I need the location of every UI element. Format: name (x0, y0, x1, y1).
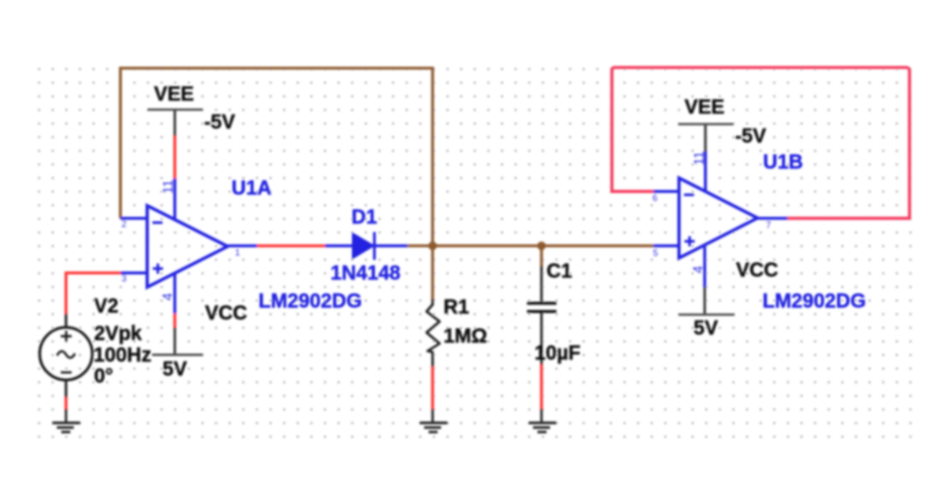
op-amp U1A pin stubs (120, 179, 257, 314)
capacitor C1 black lead top (540, 266, 543, 302)
wire: red VEE symbol to U1A pin 11 (173, 135, 176, 178)
svg-text:LM2902DG: LM2902DG (259, 291, 362, 313)
resistor R1 black lead bottom (431, 352, 434, 367)
svg-text:D1: D1 (352, 207, 378, 229)
svg-text:1MΩ: 1MΩ (444, 326, 488, 348)
diode D1 wire blue segments (325, 244, 407, 247)
wire: red from V2 top to U1A + input (66, 273, 121, 314)
node: junction dot at C1 branch (537, 242, 546, 251)
op-amp U1B pin stubs (654, 151, 788, 287)
svg-text:0°: 0° (94, 366, 113, 388)
wire: pink feedback loop U1B (output to inverting input) (612, 67, 910, 218)
svg-text:-5V: -5V (735, 126, 767, 148)
svg-text:U1A: U1A (232, 178, 272, 200)
svg-text:4: 4 (690, 265, 705, 273)
ground below C1 (529, 409, 557, 432)
wire: brown main node horizontal (diode cathode to U1B + input) (407, 244, 653, 247)
VEE power symbol (U1B) (678, 97, 767, 152)
op-amp U1B plus sign (685, 236, 695, 246)
VEE power symbol (U1A) (148, 83, 236, 136)
capacitor C1 plates (527, 303, 557, 311)
ground below V2 (52, 409, 80, 432)
op-amp U1A minus sign (153, 221, 163, 224)
wire: red C1 bottom to ground (540, 364, 543, 410)
svg-text:LM2902DG: LM2902DG (763, 291, 866, 313)
diode D1 cathode bar (373, 232, 376, 260)
svg-text:VEE: VEE (154, 83, 194, 105)
svg-text:5V: 5V (163, 359, 188, 381)
svg-text:4: 4 (160, 293, 175, 301)
svg-text:1N4148: 1N4148 (331, 263, 401, 285)
source V2 black lead bottom (65, 380, 68, 397)
resistor R1 zigzag (427, 305, 440, 353)
svg-text:11: 11 (160, 180, 175, 194)
svg-text:100Hz: 100Hz (94, 345, 152, 367)
svg-text:R1: R1 (444, 297, 470, 319)
wire: brown drop to C1 (540, 246, 543, 267)
svg-text:U1B: U1B (763, 152, 803, 174)
svg-text:V2: V2 (94, 296, 118, 318)
svg-text:2: 2 (122, 219, 127, 229)
svg-text:VCC: VCC (205, 303, 247, 325)
svg-text:2Vpk: 2Vpk (94, 323, 143, 345)
wire: red V2 bottom to ground (65, 397, 68, 410)
op-amp U1B body (679, 178, 758, 258)
svg-text:5: 5 (653, 248, 658, 258)
svg-text:3: 3 (122, 274, 127, 284)
svg-text:-5V: -5V (204, 111, 236, 133)
op-amp U1B minus sign (684, 194, 694, 197)
node: junction dot at R1 branch (428, 242, 437, 251)
source V2 minus (61, 371, 72, 373)
svg-text:6: 6 (653, 193, 658, 203)
source V2 plus (61, 331, 72, 342)
source V2 sine (57, 351, 75, 358)
svg-text:10µF: 10µF (535, 343, 581, 365)
op-amp U1A body (147, 206, 227, 288)
wire: red from U1A output to diode anode (257, 244, 326, 247)
wire: brown drop to R1 (431, 246, 434, 300)
capacitor C1 black lead bottom (540, 313, 543, 365)
svg-text:C1: C1 (547, 261, 573, 283)
wire: red U1A pin 4 to VCC symbol (173, 313, 176, 328)
VCC power symbol (U1B) (679, 259, 779, 339)
svg-text:7: 7 (766, 220, 771, 230)
grid dots (37, 67, 913, 440)
op-amp U1A plus sign (153, 264, 163, 274)
resistor R1 black lead top (431, 299, 434, 306)
svg-text:5V: 5V (694, 318, 719, 340)
source V2 black lead top (65, 314, 68, 328)
svg-text:11: 11 (692, 151, 707, 165)
wire: red R1 bottom to ground (431, 366, 434, 410)
ground below R1 (420, 409, 448, 432)
svg-text:VEE: VEE (685, 97, 725, 119)
svg-text:VCC: VCC (736, 259, 778, 281)
source V2 circle (40, 327, 93, 380)
diode D1 body (353, 233, 374, 258)
svg-text:1: 1 (235, 248, 240, 258)
VCC power symbol (U1A) (152, 303, 247, 381)
wire: brown feedback loop U1A (inverting input to output node) (120, 68, 432, 246)
